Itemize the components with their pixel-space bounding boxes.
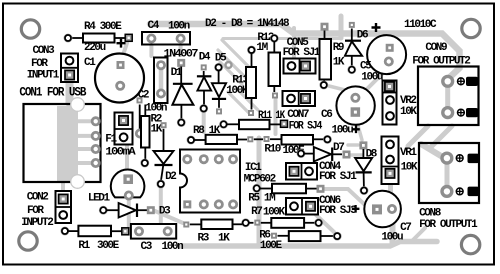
wire trace VR1 to C7 vertical xyxy=(388,176,393,206)
wire xyxy=(233,223,243,225)
wire xyxy=(249,222,254,224)
pad xyxy=(137,97,143,103)
svg-text:FOR: FOR xyxy=(27,205,44,217)
svg-text:D2 - D8 = 1N4148: D2 - D8 = 1N4148 xyxy=(205,18,290,30)
svg-text:100mA: 100mA xyxy=(105,147,136,159)
terminal 2 xyxy=(443,108,453,118)
connector CON2 xyxy=(21,191,71,229)
pad pin3 xyxy=(386,112,394,120)
pad pin2 xyxy=(305,167,313,175)
pad xyxy=(343,151,351,159)
svg-text:100E: 100E xyxy=(260,240,283,252)
svg-text:C1: C1 xyxy=(84,57,96,69)
wire xyxy=(251,54,253,68)
capacitor C6 xyxy=(321,86,375,136)
wire xyxy=(218,71,220,83)
wire trace hatch diagonals near R12 xyxy=(222,40,254,72)
pad cathode xyxy=(177,118,186,127)
svg-text:CON9: CON9 xyxy=(425,42,447,54)
pad xyxy=(372,204,382,214)
resistor R1 xyxy=(61,226,129,252)
preset VR1 xyxy=(382,137,419,185)
wire xyxy=(139,105,141,130)
mounting hole top-right xyxy=(462,19,480,37)
wire xyxy=(270,123,281,125)
wire trace LED1 down xyxy=(127,199,131,226)
diode D2 xyxy=(154,122,177,188)
LED1 xyxy=(88,169,144,204)
svg-text:D2: D2 xyxy=(165,171,176,183)
resistor R3 xyxy=(183,220,242,245)
svg-text:100K: 100K xyxy=(263,207,286,219)
cathode bar xyxy=(173,83,193,85)
pad xyxy=(333,232,342,241)
cathode bar xyxy=(212,98,226,100)
svg-text:10K: 10K xyxy=(400,106,417,118)
triangle xyxy=(355,158,372,171)
resistor R11 xyxy=(219,110,287,129)
pad pin2 xyxy=(59,211,67,219)
wire trace CON8 entry diagonal xyxy=(421,144,446,159)
svg-text:R7: R7 xyxy=(251,206,262,218)
connector CON7 xyxy=(283,91,323,132)
wire xyxy=(190,223,202,225)
wire trace R12 to R10 vertical xyxy=(274,100,278,134)
wire xyxy=(227,123,239,125)
svg-text:100n: 100n xyxy=(168,21,190,33)
wire xyxy=(114,37,126,39)
resistor R12 xyxy=(256,32,280,99)
triangle xyxy=(314,147,331,162)
capacitor C4 xyxy=(142,20,190,45)
preset VR2 xyxy=(383,81,418,125)
triangle xyxy=(172,85,193,105)
svg-text:FOR SJ3: FOR SJ3 xyxy=(319,205,357,217)
wire trace F1 down xyxy=(125,138,129,172)
pad xyxy=(359,141,367,149)
wire xyxy=(362,149,364,158)
wire trace CON9 vertical xyxy=(445,78,450,113)
plus polarity mark C6 xyxy=(352,126,360,134)
pad pin2 xyxy=(65,70,74,79)
svg-text:10K: 10K xyxy=(401,161,418,173)
pad xyxy=(99,206,108,215)
wire trace C1 ring right xyxy=(120,84,136,88)
svg-text:D5: D5 xyxy=(215,52,227,64)
cathode bar xyxy=(345,40,361,42)
connector CON1 USB xyxy=(19,86,100,189)
terminal 1 xyxy=(443,76,453,86)
fuse F1 xyxy=(105,113,136,159)
pad pin2 xyxy=(386,156,394,164)
wire xyxy=(351,29,353,41)
pad xyxy=(323,135,332,144)
via pad xyxy=(224,61,232,69)
svg-text:R3: R3 xyxy=(198,232,210,244)
pad xyxy=(163,226,173,236)
mounting hole top-left xyxy=(21,20,39,38)
wire xyxy=(261,222,272,224)
pad xyxy=(176,34,186,44)
pad pin2 xyxy=(199,199,209,209)
pad pin3 xyxy=(91,144,101,154)
pad xyxy=(146,34,156,44)
wire xyxy=(111,230,122,232)
wire xyxy=(321,235,334,237)
svg-text:MCP602: MCP602 xyxy=(244,174,276,186)
tab 2 xyxy=(468,187,480,197)
pad xyxy=(122,228,129,235)
pad pin3 xyxy=(385,169,394,178)
diode D5 xyxy=(212,52,227,114)
triangle xyxy=(212,83,226,97)
wire xyxy=(351,56,353,66)
svg-text:300E: 300E xyxy=(97,240,120,252)
wire xyxy=(306,188,317,190)
pad xyxy=(247,136,253,142)
svg-text:INPUT2: INPUT2 xyxy=(21,217,53,229)
connector CON8 xyxy=(419,143,479,231)
pad xyxy=(387,204,397,214)
resistor R8 xyxy=(187,125,254,144)
wire xyxy=(218,99,220,108)
resistor R13 xyxy=(226,46,256,116)
svg-text:FOR SJ1: FOR SJ1 xyxy=(319,171,357,183)
wire trace D3 to R3 xyxy=(155,211,183,223)
wire xyxy=(363,172,365,187)
svg-text:100u: 100u xyxy=(381,232,403,244)
svg-text:R10: R10 xyxy=(264,144,280,156)
wire trace D4 down xyxy=(202,112,206,132)
pad xyxy=(272,93,278,99)
svg-text:D4: D4 xyxy=(199,51,211,63)
pad pin1 xyxy=(290,202,298,210)
cathode bar xyxy=(197,75,212,77)
wire xyxy=(304,222,315,224)
pad xyxy=(201,64,207,70)
wire trace D2 down xyxy=(159,188,163,222)
pad xyxy=(252,184,261,193)
pad pin2 xyxy=(120,133,128,141)
wire trace C6 to D8 xyxy=(357,122,362,140)
pad pin8 xyxy=(182,154,192,164)
resistor R7 xyxy=(241,206,323,228)
pad xyxy=(156,60,166,70)
capacitor C7 xyxy=(364,191,411,244)
pad xyxy=(281,120,288,127)
pad pin1 xyxy=(183,200,191,208)
wire trace D6 top vertical xyxy=(339,16,344,38)
diode D6 xyxy=(345,22,368,74)
terminal 1 xyxy=(442,153,452,163)
resistor R10 xyxy=(254,135,332,157)
wire xyxy=(273,42,275,53)
wire xyxy=(313,138,324,140)
pad pin1 xyxy=(386,141,394,149)
screw 1 xyxy=(458,78,465,85)
triangle xyxy=(345,41,362,55)
pad pin2 xyxy=(386,96,394,104)
svg-text:FOR OUTPUT1: FOR OUTPUT1 xyxy=(419,219,478,231)
wire xyxy=(203,91,205,105)
svg-text:CON7: CON7 xyxy=(287,109,309,121)
wire xyxy=(144,105,146,117)
pad xyxy=(271,233,277,239)
pad pin6 xyxy=(214,154,224,164)
pad pin1 xyxy=(66,57,74,65)
pad pin1 xyxy=(91,116,101,126)
pad xyxy=(297,149,306,158)
pad xyxy=(161,122,167,128)
svg-text:C6: C6 xyxy=(321,109,332,121)
diode D3 xyxy=(99,203,171,218)
svg-text:R9: R9 xyxy=(333,42,344,54)
connector CON6 xyxy=(286,195,359,217)
hole top xyxy=(71,98,85,112)
triangle xyxy=(154,151,174,164)
pad anode xyxy=(123,174,133,184)
wire trace CON9 to VR1 diagonals xyxy=(408,126,428,146)
terminal 2 xyxy=(442,187,452,197)
wire xyxy=(278,235,289,237)
pad xyxy=(117,61,125,69)
pad xyxy=(384,57,394,67)
pad xyxy=(115,81,125,91)
wire trace CON3 down vertical xyxy=(66,82,74,103)
svg-text:1K: 1K xyxy=(333,57,345,69)
svg-text:INPUT1: INPUT1 xyxy=(27,69,60,81)
svg-text:1K: 1K xyxy=(218,232,230,244)
svg-text:100n: 100n xyxy=(162,241,184,253)
resistor R6 xyxy=(259,230,341,252)
svg-text:CON2: CON2 xyxy=(27,191,49,203)
svg-text:LED1: LED1 xyxy=(88,192,111,204)
wire xyxy=(107,209,119,211)
wire trace inside D1 xyxy=(159,64,164,95)
svg-text:F1: F1 xyxy=(105,134,117,146)
pad xyxy=(140,159,149,168)
capacitor C3 xyxy=(131,224,183,253)
pad pin3 xyxy=(214,199,224,209)
pad pin1 xyxy=(119,116,128,125)
wire trace CON1 inner band xyxy=(57,106,78,182)
pad xyxy=(61,227,70,236)
hole bottom xyxy=(71,175,85,189)
wire xyxy=(180,67,182,85)
diode D7 xyxy=(297,142,351,162)
wire trace band to CON8 diagonal xyxy=(412,228,425,241)
svg-text:C4: C4 xyxy=(148,20,160,32)
pad pin2 xyxy=(91,131,101,141)
svg-text:FOR SJ1: FOR SJ1 xyxy=(283,47,321,59)
wire xyxy=(180,105,182,119)
svg-text:VR1: VR1 xyxy=(400,147,417,159)
resistor R2 xyxy=(140,105,162,168)
svg-text:CON3: CON3 xyxy=(33,45,56,57)
pad xyxy=(64,34,73,43)
pad xyxy=(156,89,166,99)
capacitor C5 xyxy=(360,23,406,83)
pad anode xyxy=(177,59,185,67)
wire xyxy=(237,139,247,141)
cathode bar xyxy=(331,148,333,162)
plus polarity mark xyxy=(372,23,381,32)
wire xyxy=(273,86,275,92)
wire trace C1 to R4 xyxy=(121,43,127,61)
cathode bar xyxy=(356,171,372,173)
resistor R9 xyxy=(319,23,345,90)
wire xyxy=(324,31,326,40)
wire xyxy=(333,153,342,155)
pad xyxy=(347,65,356,74)
pad pin5 xyxy=(228,154,238,164)
wire trace C4 left stub xyxy=(149,44,153,56)
pad xyxy=(254,220,260,226)
wire xyxy=(203,71,205,76)
diode D1 xyxy=(154,49,198,127)
pad xyxy=(351,107,361,117)
wire trace C7 bottom vertical xyxy=(390,216,396,243)
wire xyxy=(70,37,84,39)
pad pin1 xyxy=(289,167,298,176)
wire xyxy=(161,165,163,181)
wire trace C6 up-left xyxy=(329,86,353,92)
pad xyxy=(187,136,196,145)
pad xyxy=(135,129,145,139)
pad xyxy=(314,218,323,227)
connector CON9 xyxy=(412,42,478,125)
pad xyxy=(386,44,394,52)
diode D4 xyxy=(197,51,212,113)
connector CON5 xyxy=(283,37,321,74)
mounting hole bottom-right xyxy=(461,235,479,253)
resistor R5 xyxy=(248,184,324,205)
pad xyxy=(270,34,279,43)
screw 2 xyxy=(456,188,463,195)
wire trace R5 right xyxy=(322,189,364,204)
pad pin4 xyxy=(91,158,101,168)
wire trace CON2 up vertical xyxy=(61,182,65,191)
plus polarity mark xyxy=(117,39,126,48)
svg-text:100u: 100u xyxy=(361,71,383,83)
traces layer xyxy=(63,16,460,246)
svg-text:D3: D3 xyxy=(159,205,171,217)
pad pin1 xyxy=(288,62,296,70)
screw 2 xyxy=(458,109,465,116)
svg-text:100u: 100u xyxy=(332,125,354,137)
pad pin2 xyxy=(306,202,315,211)
wire xyxy=(144,148,146,161)
op-amp IC1 MCP602 xyxy=(180,150,276,213)
wire trace bottom horizontal xyxy=(180,242,437,247)
pad xyxy=(125,34,132,41)
wire trace CON8 vertical xyxy=(445,162,450,189)
pad xyxy=(216,108,222,114)
svg-text:C3: C3 xyxy=(141,241,153,253)
pad pin1 xyxy=(59,194,68,203)
connector CON4 xyxy=(286,161,357,183)
capacitor C1 xyxy=(84,39,144,103)
wire trace C4 right stub xyxy=(179,44,183,55)
pad pin1 xyxy=(287,95,295,103)
wire xyxy=(68,230,78,232)
diode D8 xyxy=(355,141,378,195)
svg-text:1M: 1M xyxy=(256,42,268,54)
pad pin4 xyxy=(228,199,238,209)
pad xyxy=(219,120,228,129)
wire trace IC right vertical xyxy=(257,138,262,246)
connector CON3 xyxy=(27,45,78,82)
wire trace D8 top stub xyxy=(348,143,358,147)
wire xyxy=(270,138,282,140)
wire trace usb stubs xyxy=(72,119,95,123)
pad xyxy=(147,206,155,214)
capacitor C2 xyxy=(135,90,167,139)
pad xyxy=(349,22,355,28)
tab 1 xyxy=(466,77,478,86)
tab 2 xyxy=(466,108,478,117)
pad pin2 xyxy=(301,94,310,103)
pad pin1 xyxy=(385,82,394,91)
wire trace CON6 to R6 xyxy=(312,211,334,232)
triangle xyxy=(197,77,211,91)
wire xyxy=(260,188,272,190)
resistor R4 xyxy=(64,21,133,43)
cathode bar xyxy=(155,164,173,166)
wire trace C5 to C6 xyxy=(362,68,388,94)
pad xyxy=(360,186,369,195)
pad pin2 xyxy=(301,61,310,70)
pad xyxy=(156,180,165,189)
wire trace D7 to D8 xyxy=(350,153,362,157)
wire xyxy=(138,209,147,211)
pad xyxy=(183,222,189,228)
pad xyxy=(264,136,270,142)
pad xyxy=(241,218,250,227)
cathode bar xyxy=(136,204,138,218)
svg-text:CON8: CON8 xyxy=(419,207,442,219)
triangle xyxy=(119,203,136,218)
pad xyxy=(321,23,329,31)
plus polarity mark C7 xyxy=(352,205,360,213)
pad xyxy=(214,63,223,72)
wire xyxy=(194,139,205,141)
mounting hole bottom-left xyxy=(19,232,37,250)
svg-text:11010C: 11010C xyxy=(404,19,437,31)
pad xyxy=(317,185,325,193)
wire xyxy=(163,129,165,151)
tab 1 xyxy=(468,154,480,164)
wire trace top second line xyxy=(223,37,340,40)
svg-text:R4 300E: R4 300E xyxy=(84,21,122,33)
svg-text:R1: R1 xyxy=(78,240,90,252)
svg-text:FOR SJ4: FOR SJ4 xyxy=(289,120,323,132)
pad xyxy=(134,226,144,236)
pad xyxy=(350,93,360,103)
pad cathode xyxy=(124,191,134,201)
pad xyxy=(248,110,254,116)
pad xyxy=(247,46,256,55)
svg-text:IC1: IC1 xyxy=(245,162,262,174)
screw 1 xyxy=(456,155,463,162)
svg-text:220u: 220u xyxy=(84,42,106,54)
pad xyxy=(319,81,328,90)
wire trace top horizontal A xyxy=(150,24,460,78)
wire xyxy=(304,153,313,155)
wire xyxy=(323,80,325,83)
wire xyxy=(251,98,253,110)
wire xyxy=(254,138,263,140)
